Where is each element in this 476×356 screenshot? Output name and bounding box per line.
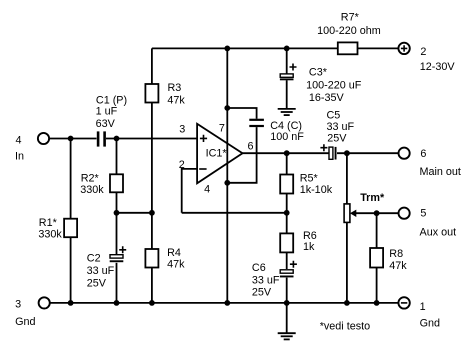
terminal 6 main out <box>399 148 461 178</box>
wire: ground stem below rail <box>286 303 288 333</box>
svg-text:33 uF: 33 uF <box>252 275 280 287</box>
svg-text:4: 4 <box>204 184 210 196</box>
svg-text:6: 6 <box>248 140 254 152</box>
svg-text:C6: C6 <box>252 262 266 274</box>
svg-text:Trm*: Trm* <box>360 192 385 204</box>
wire: input to pin 3 <box>49 138 197 140</box>
svg-text:R1*: R1* <box>39 217 58 229</box>
node: wiper / R8 junction <box>374 210 380 216</box>
capacitor C2 <box>87 246 127 289</box>
wire: top supply rail <box>152 47 399 49</box>
capacitor C1 <box>96 95 128 147</box>
svg-text:100-220 uF: 100-220 uF <box>306 80 362 92</box>
resistor R3 <box>145 82 185 106</box>
wire: output line <box>243 152 399 154</box>
wire: R2/C2 branch <box>116 139 118 303</box>
svg-text:16-35V: 16-35V <box>309 92 345 104</box>
pin 7 label <box>219 123 225 135</box>
node: bias R2/C2 junction <box>114 210 120 216</box>
wire: C3 to ground <box>286 80 288 108</box>
svg-text:C3*: C3* <box>309 67 328 79</box>
svg-text:4: 4 <box>16 135 22 147</box>
node: feedback R5/R6 junction <box>284 210 290 216</box>
svg-text:25V: 25V <box>327 133 347 145</box>
svg-text:47k: 47k <box>389 260 407 272</box>
svg-text:1 uF: 1 uF <box>96 106 118 118</box>
svg-text:25V: 25V <box>87 278 107 290</box>
op-amp IC1 <box>197 124 242 184</box>
svg-text:In: In <box>15 151 24 163</box>
node: rail / R4 junction <box>149 300 155 306</box>
svg-text:330k: 330k <box>80 184 104 196</box>
svg-text:100-220 ohm: 100-220 ohm <box>317 25 381 37</box>
svg-text:33 uF: 33 uF <box>327 121 355 133</box>
wire: C4 bottom link <box>227 127 256 183</box>
pin 6 label <box>248 140 254 152</box>
wire: R5/R6/C6 vertical branch <box>286 153 288 303</box>
svg-text:2: 2 <box>179 159 185 171</box>
resistor R1 <box>38 217 77 240</box>
wire: wiper to terminal 5 <box>356 212 399 214</box>
wire: C3 branch from rail <box>286 48 288 74</box>
svg-text:47k: 47k <box>167 94 185 106</box>
capacitor C3 <box>280 64 362 105</box>
node: output / R5 junction <box>284 150 290 156</box>
svg-text:Main out: Main out <box>420 166 461 178</box>
svg-text:25V: 25V <box>252 287 272 299</box>
node: C1 / R2 junction <box>114 136 120 142</box>
svg-text:6: 6 <box>420 148 426 160</box>
resistor R6 <box>280 230 317 253</box>
node: pin4 / C4 bottom junction <box>224 180 230 186</box>
terminal 3 ground <box>15 297 50 328</box>
wire: bias node segment <box>117 212 152 214</box>
resistor R4 <box>145 247 185 271</box>
node: rail / C6 ground junction <box>284 300 290 306</box>
wire: pin 2 stub <box>182 169 197 213</box>
svg-text:100 nF: 100 nF <box>270 131 304 143</box>
capacitor C5 <box>320 110 354 160</box>
capacitor C6 <box>252 261 297 299</box>
node: supply / C4 top junction <box>224 105 230 111</box>
wire: R3/R4 vertical branch <box>151 48 153 303</box>
svg-text:R7*: R7* <box>341 12 360 24</box>
terminal 1 ground minus <box>398 297 440 329</box>
resistor R7 <box>317 12 381 55</box>
ground at bottom rail <box>278 333 296 339</box>
svg-text:1k: 1k <box>303 241 315 253</box>
svg-text:R5*: R5* <box>300 173 319 185</box>
svg-text:63V: 63V <box>96 118 116 130</box>
node: rail / C2 junction <box>114 300 120 306</box>
svg-text:330k: 330k <box>38 228 62 240</box>
trimmer Trm <box>344 192 385 222</box>
svg-text:C2: C2 <box>87 252 101 264</box>
svg-text:IC1*: IC1* <box>206 147 228 159</box>
wire: supply/pin7/pin4 vertical <box>226 48 228 303</box>
node: rail / pin4 junction <box>224 300 230 306</box>
pin 4 label <box>204 184 210 196</box>
pin 3 label <box>179 124 185 136</box>
resistor R2 <box>80 173 123 197</box>
svg-text:47k: 47k <box>167 259 185 271</box>
wire: R1 branch <box>70 139 72 303</box>
wire: trimmer vertical branch <box>346 153 348 303</box>
svg-text:33 uF: 33 uF <box>87 265 115 277</box>
node: bias R3/R4 junction <box>149 210 155 216</box>
svg-text:Gnd: Gnd <box>420 318 440 330</box>
pin 2 label <box>179 159 185 171</box>
svg-text:2: 2 <box>420 46 426 58</box>
node: rail / supply drop junction <box>224 46 230 52</box>
wire: feedback node segment <box>182 212 287 214</box>
svg-text:1: 1 <box>420 301 426 313</box>
svg-text:R3: R3 <box>168 82 182 94</box>
resistor R5 <box>280 173 333 197</box>
svg-text:R8: R8 <box>389 248 403 260</box>
node: rail / trimmer junction <box>344 300 350 306</box>
svg-text:7: 7 <box>219 123 225 135</box>
svg-text:Aux out: Aux out <box>420 227 457 239</box>
node: rail / C3 junction <box>284 46 290 52</box>
resistor R8 <box>370 248 407 272</box>
terminal 5 aux out <box>399 208 457 239</box>
wire: C4 top link <box>227 108 256 119</box>
terminal 2 supply plus <box>398 43 455 73</box>
svg-text:*vedi testo: *vedi testo <box>320 321 370 333</box>
svg-text:1k-10k: 1k-10k <box>300 184 333 196</box>
node: input / R1 junction <box>68 136 74 142</box>
svg-text:Gnd: Gnd <box>15 316 35 328</box>
svg-text:R2*: R2* <box>81 173 100 185</box>
node: output / trimmer junction <box>344 150 350 156</box>
svg-text:R4: R4 <box>167 247 181 259</box>
node: rail / R8 junction <box>374 300 380 306</box>
svg-text:5: 5 <box>420 208 426 220</box>
svg-text:12-30V: 12-30V <box>420 61 456 73</box>
svg-text:3: 3 <box>15 298 21 310</box>
wire: bottom ground rail <box>50 302 399 304</box>
svg-text:C5: C5 <box>327 110 341 122</box>
capacitor C4 <box>249 119 304 143</box>
svg-text:3: 3 <box>179 124 185 136</box>
wire: R8 branch <box>376 213 378 303</box>
ground below C3 <box>278 109 296 115</box>
note vedi testo <box>320 321 370 333</box>
node: rail / R1 junction <box>68 300 74 306</box>
terminal 4 input <box>15 133 49 163</box>
